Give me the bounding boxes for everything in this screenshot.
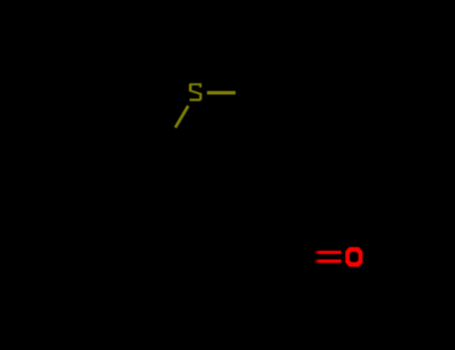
C=O double bond upper line bbox=[314, 251, 341, 254]
C=O double bond lower line bbox=[314, 260, 341, 263]
atom label O (oxygen, octagonal glyph) bbox=[345, 247, 362, 267]
atom label S (sulfur) bbox=[189, 83, 202, 101]
bond S to methyl carbon (horizontal) bbox=[207, 91, 236, 95]
bond S to ring carbon (diagonal down-left) bbox=[175, 106, 188, 128]
